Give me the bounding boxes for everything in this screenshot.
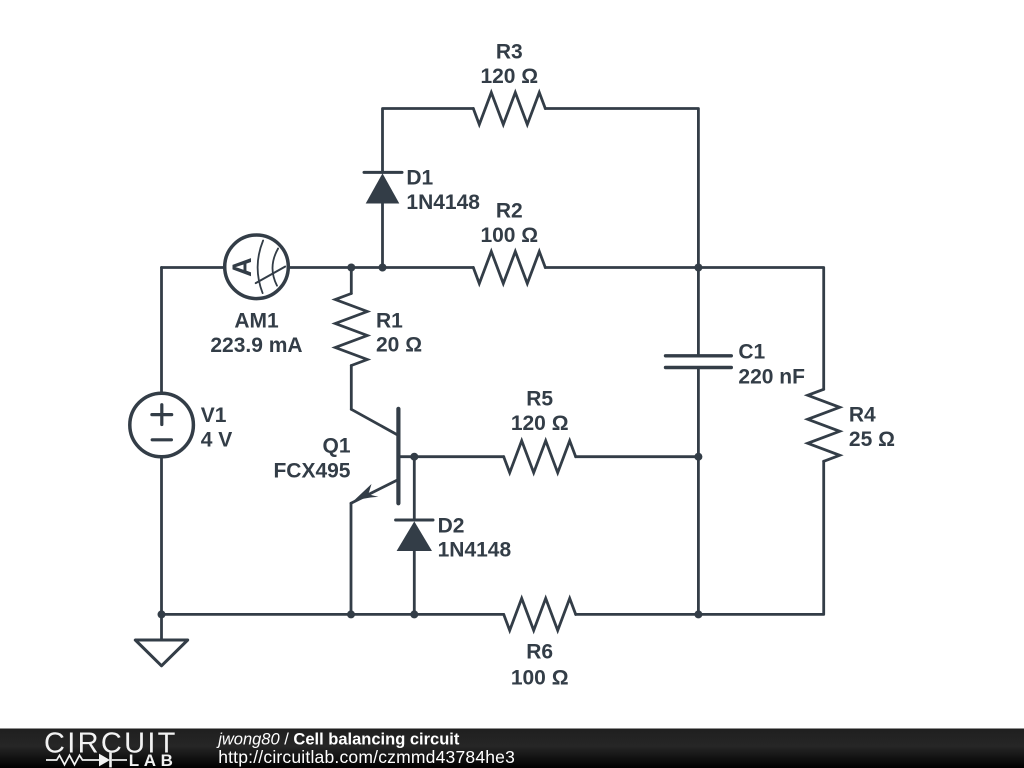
svg-text:R4: R4 <box>849 404 876 427</box>
wire emitter vertical to rail <box>350 503 353 614</box>
wire R5 right to C1 node <box>576 455 699 458</box>
node base/D2 top <box>410 453 418 461</box>
svg-text:A: A <box>227 257 257 277</box>
svg-text:20 Ω: 20 Ω <box>376 334 422 357</box>
wire left vertical top (corner to V1) <box>160 268 163 394</box>
svg-text:LAB: LAB <box>129 751 178 768</box>
V1 plus sign <box>152 405 172 425</box>
svg-text:120 Ω: 120 Ω <box>511 412 569 435</box>
svg-text:R5: R5 <box>526 388 553 411</box>
svg-text:R6: R6 <box>526 640 553 663</box>
node R1 top <box>347 264 355 272</box>
diode D2 triangle <box>397 521 432 551</box>
diode D2 cathode bar <box>396 519 433 522</box>
wire R2 right to top-right corner <box>545 268 823 390</box>
svg-text:R1: R1 <box>376 310 403 333</box>
svg-text:D2: D2 <box>438 514 465 537</box>
ground stub <box>160 614 163 640</box>
wire R1 bottom lead to collector <box>350 366 353 410</box>
wire D1 branch upper lead <box>383 109 474 173</box>
wire base node to R5 <box>400 455 504 458</box>
svg-text:100 Ω: 100 Ω <box>480 224 538 247</box>
wire C1 bottom lead down to bottom rail <box>697 368 700 615</box>
svg-text:1N4148: 1N4148 <box>438 539 512 562</box>
svg-text:AM1: AM1 <box>234 310 279 333</box>
svg-text:223.9 mA: 223.9 mA <box>210 334 302 357</box>
node C1 top <box>694 264 702 272</box>
capacitor C1 top plate <box>666 354 732 357</box>
voltage source V1 circle <box>130 393 194 457</box>
diode D1 cathode bar <box>364 171 402 174</box>
wire D2 top lead <box>413 457 416 520</box>
svg-text:4 V: 4 V <box>201 428 233 451</box>
svg-text:220 nF: 220 nF <box>738 365 805 388</box>
logo diode triangle <box>99 754 110 767</box>
wire bottom rail left of R6 <box>162 613 504 616</box>
svg-text:V1: V1 <box>201 404 227 427</box>
wire R3 right then down to node <box>545 109 698 268</box>
wire R4 bottom to bottom-right corner <box>576 461 824 614</box>
transistor Q1 emitter arrow <box>351 484 379 503</box>
node ground <box>158 610 166 618</box>
svg-text:R2: R2 <box>496 200 523 223</box>
resistor R4 <box>808 389 840 461</box>
ammeter AM1 circle <box>225 235 289 299</box>
wire D1 branch lower lead <box>381 204 384 268</box>
node C1 bottom <box>694 453 702 461</box>
transistor Q1 base bar <box>396 409 400 504</box>
resistor R2 <box>473 252 545 284</box>
node D2 bottom <box>410 610 418 618</box>
ground triangle <box>135 640 187 666</box>
capacitor C1 bottom plate <box>666 366 732 369</box>
svg-text:jwong80 / Cell balancing circu: jwong80 / Cell balancing circuit <box>216 731 460 749</box>
svg-text:Q1: Q1 <box>322 434 350 457</box>
V1 minus sign <box>152 438 171 441</box>
resistor R1 <box>335 294 367 366</box>
svg-text:25 Ω: 25 Ω <box>849 428 895 451</box>
resistor R6 <box>504 598 576 630</box>
wire top-left horizontal to ammeter <box>162 266 226 269</box>
resistor R3 <box>473 93 545 125</box>
svg-text:R3: R3 <box>496 41 523 64</box>
svg-text:FCX495: FCX495 <box>273 459 350 482</box>
svg-text:100 Ω: 100 Ω <box>511 666 569 689</box>
wire D2 bottom lead <box>413 551 416 614</box>
wire C1 top lead <box>697 268 700 356</box>
wire ammeter right to R2 <box>288 266 473 269</box>
node D1 bottom <box>379 264 387 272</box>
svg-text:C1: C1 <box>738 340 765 363</box>
svg-text:http://circuitlab.com/czmmd437: http://circuitlab.com/czmmd43784he3 <box>218 747 515 767</box>
ammeter needle <box>256 267 285 284</box>
ammeter letter A <box>227 257 257 277</box>
ammeter gauge arc outer <box>258 241 263 294</box>
transistor Q1 collector slant <box>351 409 397 434</box>
wire R1 top lead <box>350 268 353 294</box>
wire left vertical bottom (V1 to rail) <box>160 457 163 615</box>
resistor R5 <box>504 441 576 473</box>
svg-text:1N4148: 1N4148 <box>406 191 480 214</box>
diode D1 triangle <box>366 173 400 203</box>
logo resistor-diode line <box>46 753 127 768</box>
node emitter on rail <box>347 610 355 618</box>
svg-text:120 Ω: 120 Ω <box>480 65 538 88</box>
node bottom C1 branch <box>694 610 702 618</box>
transistor Q1 emitter slant <box>351 480 398 504</box>
svg-text:D1: D1 <box>406 167 433 190</box>
ammeter gauge arc inner <box>273 249 279 286</box>
